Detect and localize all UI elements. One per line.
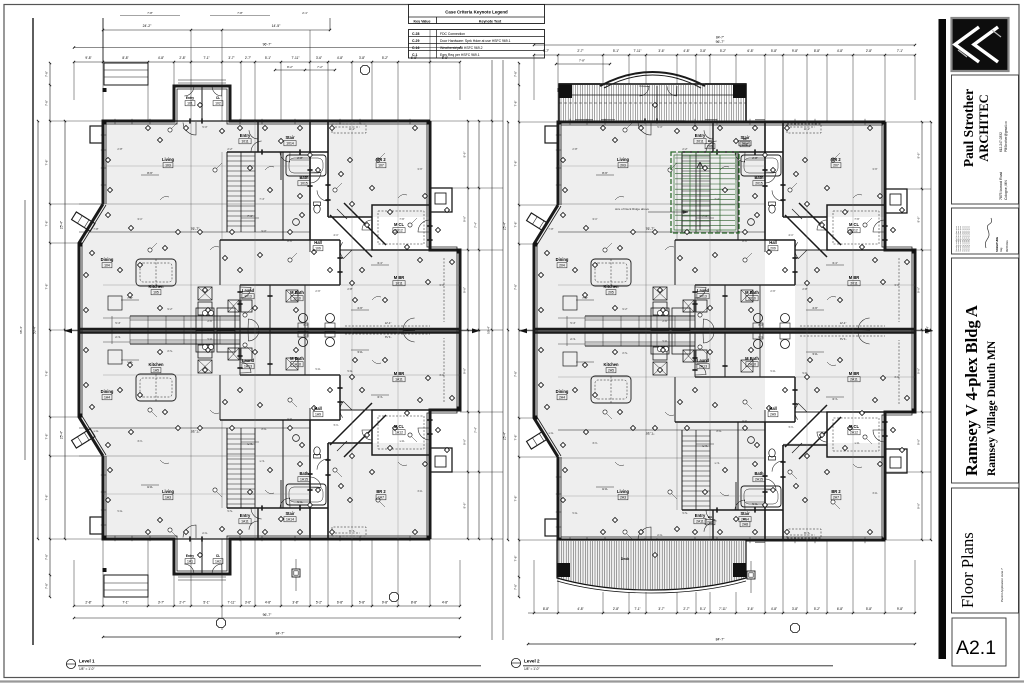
- svg-text:2011: 2011: [696, 140, 703, 144]
- svg-text:101: 101: [187, 102, 193, 106]
- svg-text:Entry: Entry: [186, 96, 194, 100]
- svg-text:M CL: M CL: [394, 222, 405, 227]
- outer walls: [79, 63, 460, 330]
- svg-text:7'-8": 7'-8": [93, 227, 98, 231]
- svg-text:1/8" = 1'-0": 1/8" = 1'-0": [524, 667, 540, 671]
- svg-text:7'-8": 7'-8": [514, 284, 518, 290]
- svg-text:1A12: 1A12: [395, 431, 403, 435]
- svg-text:9'-8": 9'-8": [85, 56, 91, 60]
- svg-text:2'-6": 2'-6": [770, 289, 775, 293]
- svg-text:84'-7": 84'-7": [276, 632, 285, 636]
- svg-text:3'-6": 3'-6": [872, 491, 877, 495]
- svg-text:84'-7": 84'-7": [716, 36, 724, 40]
- svg-text:9'-6": 9'-6": [463, 439, 467, 445]
- stair open-below green box: [671, 152, 739, 233]
- svg-text:5'-1": 5'-1": [700, 607, 706, 611]
- svg-text:Bath: Bath: [754, 471, 764, 476]
- svg-text:Dining: Dining: [556, 257, 569, 262]
- svg-text:2'-8": 2'-8": [179, 56, 185, 60]
- svg-text:2'-2": 2'-2": [682, 511, 687, 515]
- svg-text:Door Hardware: Sprk Hdwr at us: Door Hardware: Sprk Hdwr at use HSFC 969…: [440, 39, 511, 43]
- svg-text:8'-6": 8'-6": [602, 487, 608, 491]
- window marks: [101, 516, 103, 532]
- svg-text:Hall: Hall: [314, 240, 322, 245]
- svg-text:7'-8": 7'-8": [45, 71, 49, 77]
- svg-text:2'-6": 2'-6": [315, 289, 320, 293]
- svg-text:M Bath: M Bath: [290, 290, 304, 295]
- svg-text:96'-7": 96'-7": [716, 40, 725, 44]
- svg-text:Living: Living: [162, 489, 175, 494]
- svg-text:3'-6": 3'-6": [417, 167, 422, 171]
- dimension lines right: [467, 121, 469, 539]
- svg-text:9'-0": 9'-0": [716, 429, 721, 433]
- svg-text:3'-1": 3'-1": [832, 261, 838, 265]
- diagonal bay window right plan: [527, 213, 550, 232]
- svg-text:4'-8": 4'-8": [265, 601, 271, 605]
- svg-text:102: 102: [215, 102, 221, 106]
- svg-text:2015: 2015: [755, 182, 763, 186]
- svg-text:6'-0": 6'-0": [303, 323, 308, 327]
- svg-text:M Bath: M Bath: [745, 290, 759, 295]
- svg-text:C.16: C.16: [412, 46, 419, 50]
- svg-text:2'-8": 2'-8": [802, 287, 807, 291]
- svg-text:1010: 1010: [293, 297, 301, 301]
- svg-text:3'-7": 3'-7": [658, 607, 664, 611]
- svg-text:ARCHITEC: ARCHITEC: [977, 94, 991, 161]
- svg-text:3'-6": 3'-6": [245, 601, 251, 605]
- svg-text:A2.1: A2.1: [956, 637, 996, 659]
- svg-text:7'-8": 7'-8": [147, 11, 153, 15]
- dims right plan sides: [518, 63, 520, 597]
- dimension lines top: [103, 29, 330, 31]
- svg-text:3'-1": 3'-1": [592, 441, 597, 445]
- svg-text:9'-6": 9'-6": [917, 217, 921, 223]
- svg-text:2'-6": 2'-6": [207, 319, 212, 323]
- architect name box: [952, 75, 1019, 204]
- svg-text:7'-1": 7'-1": [122, 601, 128, 605]
- svg-text:7'-4": 7'-4": [714, 197, 719, 201]
- party wall right plan: [534, 328, 915, 331]
- svg-text:4'-6": 4'-6": [812, 352, 818, 356]
- svg-text:9'-6": 9'-6": [463, 503, 467, 509]
- unit interior walls x-offset 455: [764, 121, 766, 240]
- svg-text:2A8: 2A8: [742, 523, 748, 527]
- svg-text:2'-8": 2'-8": [117, 147, 122, 151]
- svg-text:Stair: Stair: [285, 511, 295, 516]
- svg-text:7'-8": 7'-8": [514, 161, 518, 167]
- svg-text:3'-8": 3'-8": [700, 49, 706, 53]
- RIGHT PLAN level 2: [558, 122, 765, 232]
- svg-text:12'-4": 12'-4": [385, 321, 392, 325]
- svg-text:24'-2": 24'-2": [143, 24, 152, 28]
- svg-text:7'-8": 7'-8": [514, 222, 518, 228]
- svg-text:9'-6": 9'-6": [917, 153, 921, 159]
- svg-text:7'-8": 7'-8": [548, 431, 553, 435]
- svg-text:7'-8": 7'-8": [45, 284, 49, 290]
- svg-text:4'-1": 4'-1": [788, 425, 793, 429]
- party wall: [79, 328, 460, 331]
- svg-text:3'-1": 3'-1": [377, 395, 383, 399]
- svg-text:7'-8": 7'-8": [237, 11, 243, 15]
- svg-text:4'-1": 4'-1": [333, 233, 338, 237]
- svg-text:2'-8": 2'-8": [117, 509, 122, 513]
- svg-text:6'-8": 6'-8": [411, 56, 417, 60]
- svg-text:M CL: M CL: [394, 424, 405, 429]
- svg-text:2A11: 2A11: [696, 520, 704, 524]
- m bath fixtures: [299, 338, 308, 347]
- svg-text:9'-6": 9'-6": [463, 216, 467, 222]
- svg-text:BR 2: BR 2: [831, 157, 841, 162]
- svg-text:Laund: Laund: [697, 358, 710, 363]
- svg-text:7'-8": 7'-8": [45, 495, 49, 501]
- svg-text:Permit Application June 7: Permit Application June 7: [1000, 568, 1004, 602]
- svg-text:7'-4": 7'-4": [259, 459, 264, 463]
- angled hall walls: [330, 215, 372, 257]
- svg-text:9'-2": 9'-2": [167, 349, 172, 353]
- svg-text:2A15: 2A15: [755, 478, 763, 482]
- svg-text:7'-11": 7'-11": [228, 601, 236, 605]
- svg-text:1A5: 1A5: [153, 369, 159, 373]
- unit interior walls x-offset 0: [309, 420, 311, 539]
- svg-text:4'-1": 4'-1": [333, 423, 338, 427]
- signature box: [952, 208, 1019, 254]
- svg-text:Hall: Hall: [769, 406, 777, 411]
- svg-text:Cologne, MN: Cologne, MN: [1004, 180, 1008, 200]
- svg-text:8'-6": 8'-6": [602, 171, 608, 175]
- kitchen counters: [585, 315, 695, 317]
- svg-text:2'-8": 2'-8": [572, 511, 577, 515]
- laundry: [228, 348, 239, 360]
- svg-text:3'-6": 3'-6": [316, 56, 322, 60]
- svg-text:7'-8": 7'-8": [93, 429, 98, 433]
- svg-text:2'-2": 2'-2": [227, 147, 232, 151]
- svg-text:4'-1": 4'-1": [788, 233, 793, 237]
- svg-text:1A9: 1A9: [315, 413, 321, 417]
- toilet: [769, 205, 775, 213]
- svg-text:M Bath: M Bath: [290, 356, 304, 361]
- svg-text:1A3: 1A3: [165, 496, 171, 500]
- svg-text:Living: Living: [162, 157, 175, 162]
- svg-text:2A9: 2A9: [770, 413, 776, 417]
- svg-text:7'-1": 7'-1": [634, 607, 640, 611]
- svg-text:14'-5": 14'-5": [272, 24, 281, 28]
- svg-text:203: 203: [620, 164, 626, 168]
- svg-text:BR 2: BR 2: [376, 157, 386, 162]
- stair: [226, 152, 228, 232]
- svg-text:size of Deck Ridge above: size of Deck Ridge above: [615, 207, 649, 211]
- svg-text:109: 109: [315, 247, 321, 251]
- svg-text:Keynote Text: Keynote Text: [479, 19, 502, 23]
- diagonal bay window: [72, 212, 95, 231]
- svg-text:76'-7": 76'-7": [646, 431, 655, 435]
- svg-text:7'-8": 7'-8": [514, 556, 518, 562]
- svg-text:5'-1": 5'-1": [613, 49, 619, 53]
- unit interior walls x-offset 0: [309, 121, 311, 240]
- svg-text:1A7: 1A7: [378, 496, 384, 500]
- svg-text:PBStrother@gmail.co: PBStrother@gmail.co: [1004, 121, 1008, 152]
- toilet: [769, 449, 775, 457]
- svg-text:3'-6": 3'-6": [747, 607, 753, 611]
- svg-text:84'-7": 84'-7": [716, 638, 725, 642]
- svg-text:7'-6": 7'-6": [399, 217, 404, 221]
- svg-text:7'-8": 7'-8": [579, 59, 585, 63]
- svg-text:8'-6": 8'-6": [287, 239, 292, 243]
- svg-text:1013: 1013: [244, 295, 252, 299]
- svg-text:Bath: Bath: [299, 471, 309, 476]
- svg-text:2'-7": 2'-7": [245, 56, 251, 60]
- svg-text:7'-6": 7'-6": [854, 217, 859, 221]
- door swing arcs: [183, 525, 196, 538]
- svg-text:9'-2": 9'-2": [622, 351, 627, 355]
- window marks: [556, 518, 558, 534]
- svg-text:M BR: M BR: [394, 371, 405, 376]
- svg-text:3'-7": 3'-7": [158, 601, 164, 605]
- svg-text:5'-8": 5'-8": [771, 49, 777, 53]
- svg-text:6'-8": 6'-8": [837, 607, 843, 611]
- svg-text:8'-6": 8'-6": [147, 485, 153, 489]
- svg-text:2'-8": 2'-8": [347, 287, 352, 291]
- svg-text:9'-2": 9'-2": [167, 307, 172, 311]
- svg-text:7'-6": 7'-6": [854, 441, 859, 445]
- svg-text:1A13: 1A13: [244, 365, 252, 369]
- svg-text:M CL: M CL: [849, 222, 860, 227]
- svg-text:8'-6": 8'-6": [742, 239, 747, 243]
- deck bottom: [557, 540, 746, 590]
- svg-text:6'-0": 6'-0": [758, 323, 763, 327]
- level 2 marker: [511, 658, 520, 667]
- M CL walls: [372, 410, 430, 455]
- angled hall walls: [330, 403, 372, 445]
- svg-text:8'-2": 8'-2": [287, 65, 293, 69]
- svg-text:I hereby certify this plan spe: I hereby certify this plan spec: [968, 226, 971, 252]
- svg-text:96'-7": 96'-7": [263, 43, 272, 47]
- svg-text:4'-6": 4'-6": [357, 350, 363, 354]
- stair: [226, 428, 228, 508]
- svg-text:7'-8": 7'-8": [45, 554, 49, 560]
- svg-text:Dining: Dining: [556, 389, 569, 394]
- svg-text:7'-11": 7'-11": [292, 56, 300, 60]
- svg-text:Bath: Bath: [754, 175, 764, 180]
- stair: [681, 430, 683, 510]
- svg-text:5'-2": 5'-2": [316, 601, 322, 605]
- svg-text:1015: 1015: [300, 182, 308, 186]
- svg-text:Dining: Dining: [101, 389, 114, 394]
- door swing arcs: [638, 122, 651, 135]
- svg-text:Bath: Bath: [299, 175, 309, 180]
- svg-text:Entry: Entry: [695, 133, 706, 138]
- svg-text:5'-1": 5'-1": [265, 56, 271, 60]
- svg-text:12'-4": 12'-4": [840, 337, 847, 341]
- svg-text:1014: 1014: [286, 142, 294, 146]
- svg-text:8'-6": 8'-6": [287, 417, 292, 421]
- M CL walls: [372, 205, 430, 250]
- svg-text:SIGNATURE: SIGNATURE: [995, 237, 999, 252]
- svg-text:3'-6": 3'-6": [658, 49, 664, 53]
- angled hall walls: [785, 215, 827, 257]
- svg-text:4'-8": 4'-8": [577, 607, 583, 611]
- svg-text:25'-4": 25'-4": [60, 221, 64, 229]
- M CL walls: [827, 412, 885, 457]
- svg-text:105: 105: [153, 291, 159, 295]
- svg-text:M Bath: M Bath: [745, 356, 759, 361]
- svg-text:8'-8": 8'-8": [543, 607, 549, 611]
- svg-text:3'-1": 3'-1": [832, 397, 838, 401]
- svg-text:BR 2: BR 2: [831, 489, 841, 494]
- svg-text:CL: CL: [216, 554, 220, 558]
- unit interior walls x-offset 455: [764, 422, 766, 541]
- svg-text:9'-6": 9'-6": [917, 368, 921, 374]
- svg-text:M BR: M BR: [849, 371, 860, 376]
- svg-text:3'-0": 3'-0": [439, 373, 444, 377]
- keynote legend table: [409, 5, 545, 24]
- svg-text:7'-4": 7'-4": [474, 222, 478, 228]
- svg-text:2'-8": 2'-8": [572, 147, 577, 151]
- svg-text:4'-8": 4'-8": [771, 607, 777, 611]
- project title box: [952, 258, 1019, 483]
- svg-text:9'-2": 9'-2": [622, 307, 627, 311]
- svg-text:9'-0": 9'-0": [261, 229, 266, 233]
- svg-text:1/8" = 1'-0": 1/8" = 1'-0": [79, 667, 95, 671]
- svg-text:7'-8": 7'-8": [514, 101, 518, 107]
- svg-text:3'-8": 3'-8": [359, 56, 365, 60]
- svg-text:BR 2: BR 2: [376, 489, 386, 494]
- M CL walls: [827, 205, 885, 250]
- svg-text:5'-8": 5'-8": [359, 601, 365, 605]
- m bath fixtures: [754, 314, 763, 323]
- bath tub: [737, 152, 739, 240]
- svg-text:4'-8": 4'-8": [837, 49, 843, 53]
- kitchen counters: [130, 315, 240, 317]
- svg-text:1A11: 1A11: [395, 378, 403, 382]
- svg-text:Dining: Dining: [101, 257, 114, 262]
- bath tub: [282, 152, 284, 240]
- svg-text:2'-2": 2'-2": [682, 147, 687, 151]
- svg-text:207: 207: [833, 164, 839, 168]
- svg-text:Ramsey Village Duluth MN: Ramsey Village Duluth MN: [986, 340, 998, 476]
- svg-text:8'-6": 8'-6": [147, 171, 153, 175]
- svg-text:7'-4": 7'-4": [714, 461, 719, 465]
- svg-text:5'-4": 5'-4": [570, 337, 575, 341]
- svg-text:4'-8": 4'-8": [683, 49, 689, 53]
- svg-text:9'-6": 9'-6": [917, 503, 921, 509]
- svg-text:107: 107: [378, 164, 384, 168]
- svg-text:6'-8": 6'-8": [747, 49, 753, 53]
- svg-text:7'-8": 7'-8": [514, 71, 518, 77]
- svg-text:96'-7": 96'-7": [263, 613, 272, 617]
- svg-text:1A10: 1A10: [293, 363, 301, 367]
- svg-text:2A7: 2A7: [833, 496, 839, 500]
- svg-text:7'-8": 7'-8": [45, 221, 49, 227]
- svg-text:612-247-0332: 612-247-0332: [999, 132, 1003, 152]
- svg-text:Entry: Entry: [695, 513, 706, 518]
- svg-text:7'-1": 7'-1": [203, 56, 209, 60]
- svg-text:7'-1": 7'-1": [702, 214, 708, 218]
- svg-text:Kitchen: Kitchen: [603, 362, 619, 367]
- svg-text:2'-7": 2'-7": [577, 49, 583, 53]
- svg-text:7'-4": 7'-4": [474, 427, 478, 433]
- svg-text:7'-8": 7'-8": [45, 371, 49, 377]
- window marks: [101, 128, 103, 144]
- kitchen counters: [585, 345, 695, 347]
- svg-text:1011: 1011: [241, 140, 248, 144]
- svg-text:Reg: Reg: [1000, 247, 1003, 252]
- svg-text:9'-6": 9'-6": [917, 287, 921, 293]
- svg-text:7'-2": 7'-2": [317, 65, 323, 69]
- dims right plan top: [534, 44, 915, 46]
- svg-text:5'-0": 5'-0": [202, 125, 207, 129]
- svg-text:25'-4": 25'-4": [503, 222, 507, 230]
- svg-text:2'-7": 2'-7": [683, 607, 689, 611]
- svg-text:1A4: 1A4: [104, 396, 110, 400]
- extension lines top: [73, 62, 75, 100]
- svg-text:3'-6": 3'-6": [417, 489, 422, 493]
- sheet number box: [952, 618, 1006, 666]
- svg-text:25'-4": 25'-4": [60, 431, 64, 439]
- svg-text:CL: CL: [743, 137, 747, 141]
- svg-text:5'-4": 5'-4": [115, 335, 120, 339]
- svg-text:2A5: 2A5: [608, 369, 614, 373]
- kitchen counters: [130, 343, 240, 345]
- svg-text:7'-1": 7'-1": [702, 444, 708, 448]
- svg-text:3'-6": 3'-6": [872, 167, 877, 171]
- svg-text:7'-8": 7'-8": [514, 496, 518, 502]
- svg-text:7'-8": 7'-8": [548, 227, 553, 231]
- svg-text:9'-6": 9'-6": [463, 287, 467, 293]
- svg-text:Kitchen: Kitchen: [603, 284, 619, 289]
- svg-text:204: 204: [559, 264, 565, 268]
- svg-text:104: 104: [104, 264, 110, 268]
- svg-text:FDC Connection: FDC Connection: [440, 32, 465, 36]
- svg-text:Ramsey V 4-plex Bldg A: Ramsey V 4-plex Bldg A: [962, 305, 981, 476]
- title block sidebar black bar: [939, 19, 947, 659]
- svg-text:1A11: 1A11: [241, 520, 249, 524]
- svg-text:4'-8": 4'-8": [158, 56, 164, 60]
- svg-text:Stair: Stair: [740, 511, 750, 516]
- svg-text:3'-0": 3'-0": [439, 283, 444, 287]
- svg-text:5'-2": 5'-2": [382, 56, 388, 60]
- svg-text:5'-0": 5'-0": [202, 531, 207, 535]
- svg-text:8'-8": 8'-8": [411, 601, 417, 605]
- left margin grid line: [32, 18, 34, 645]
- svg-text:9'-8": 9'-8": [382, 601, 388, 605]
- svg-text:2A10: 2A10: [748, 363, 756, 367]
- grid bubbles: [389, 592, 398, 601]
- m bath fixtures: [299, 314, 308, 323]
- svg-text:5'-4": 5'-4": [570, 321, 575, 325]
- svg-text:3'-1": 3'-1": [592, 217, 597, 221]
- svg-text:5'-4": 5'-4": [115, 321, 120, 325]
- svg-text:Deck: Deck: [621, 557, 630, 561]
- svg-text:Level 2: Level 2: [524, 659, 540, 664]
- svg-text:7'-8": 7'-8": [45, 160, 49, 166]
- svg-text:2011: 2011: [850, 282, 857, 286]
- svg-text:4'-6": 4'-6": [812, 306, 818, 310]
- svg-text:Laund: Laund: [697, 288, 710, 293]
- svg-text:Entry: Entry: [240, 513, 251, 518]
- level 1 marker: [66, 659, 75, 668]
- svg-text:2010: 2010: [748, 297, 756, 301]
- svg-text:3'-1": 3'-1": [137, 217, 142, 221]
- svg-text:Kitchen: Kitchen: [148, 284, 164, 289]
- svg-text:12'-4": 12'-4": [840, 321, 847, 325]
- svg-text:2A4: 2A4: [559, 396, 565, 400]
- svg-text:8'-6": 8'-6": [742, 419, 747, 423]
- svg-text:7'-8": 7'-8": [45, 434, 49, 440]
- svg-text:209: 209: [770, 247, 776, 251]
- svg-text:2A12: 2A12: [850, 431, 858, 435]
- sheet name box: [952, 488, 1019, 613]
- svg-text:2'-8": 2'-8": [347, 369, 352, 373]
